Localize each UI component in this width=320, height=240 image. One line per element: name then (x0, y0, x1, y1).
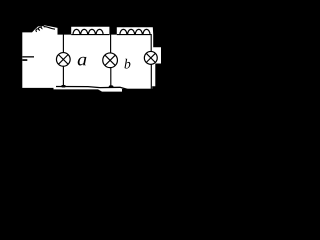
wire branch b (bottom) (110, 68, 112, 88)
wire baseline under L3 (117, 34, 152, 36)
lamp b (103, 53, 118, 68)
node junction a (61, 85, 66, 88)
inductor L1 (small tilted coil) (36, 25, 55, 31)
lamp c (144, 51, 157, 64)
battery B1 short plate (22, 59, 27, 61)
lamp a (56, 53, 70, 67)
battery B1 long plate (22, 56, 34, 57)
label b (124, 59, 130, 69)
wire baseline under L2 (71, 34, 109, 36)
background (0, 0, 188, 94)
label a (78, 57, 87, 66)
wire branch a (top) (62, 34, 64, 53)
wire branch b (top) (110, 34, 112, 53)
inductor L2 (4 humps) (73, 29, 103, 34)
wire bottom bus (56, 87, 152, 90)
node junction b (109, 85, 114, 88)
wire branch a (bottom) (62, 66, 64, 87)
inductor L3 (4 humps) (120, 29, 150, 34)
wire branch c (bottom) (150, 64, 152, 89)
wire branch c (top) (150, 34, 152, 52)
white figure region (22, 25, 161, 91)
